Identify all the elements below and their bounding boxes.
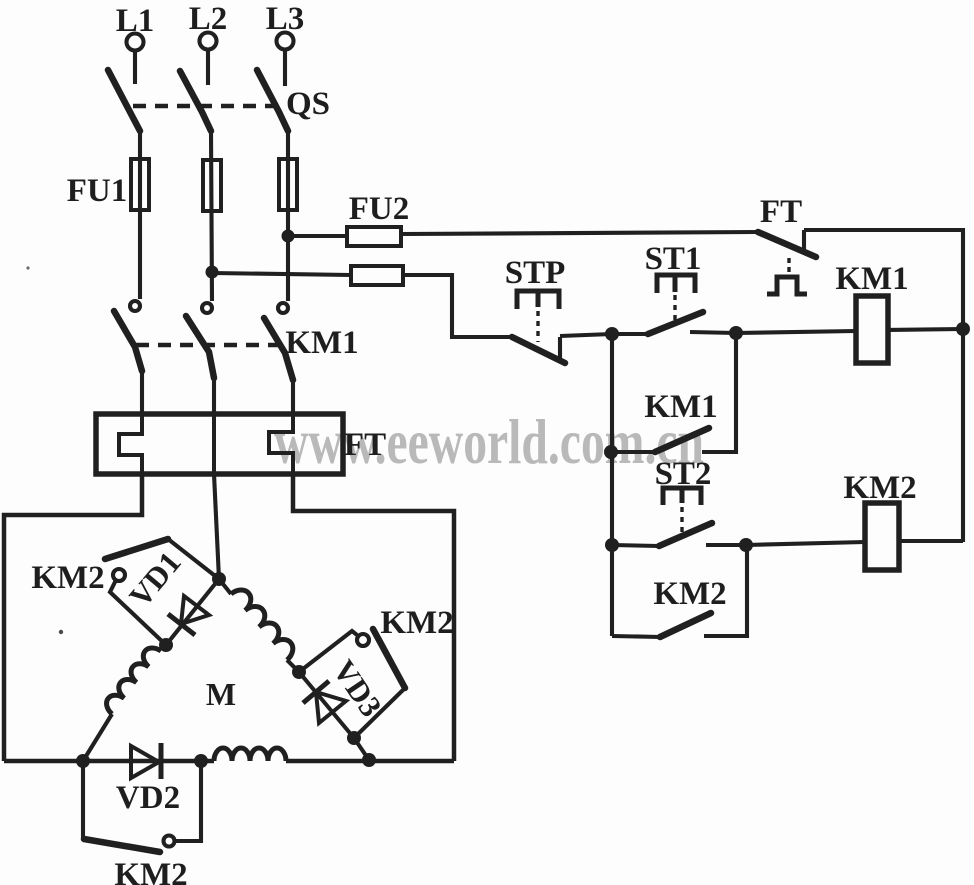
fuse FU1 pole3 (279, 159, 297, 210)
contact KM2 (VD1) terminal (113, 569, 125, 581)
svg-text:L1: L1 (116, 3, 155, 39)
wire vertex to right coil (219, 579, 231, 594)
node VD1 lower (159, 638, 173, 652)
svg-text:KM2: KM2 (653, 576, 726, 612)
diode VD2 cathode bar (159, 743, 164, 779)
button STP blade (512, 337, 565, 363)
node right rail (956, 322, 970, 336)
wire motor bottom bus right (286, 759, 454, 764)
node L2 terminal (189, 1, 228, 50)
node ST2 left (605, 538, 619, 552)
wire KM2 aux right (704, 545, 747, 636)
diode VD3 cathode bar (303, 681, 329, 703)
svg-text:VD1: VD1 (122, 545, 188, 614)
contactor KM1 pole2 terminal (202, 303, 212, 313)
speck (59, 630, 63, 634)
wire node to ST2 (612, 545, 659, 546)
svg-text:VD2: VD2 (116, 780, 180, 816)
thermal contact FT blade (758, 232, 816, 257)
wire KM1 pole3 to FT box (291, 380, 295, 414)
wire VD3 to bottom bus (354, 738, 369, 760)
button STP dashed (536, 311, 539, 342)
contactor KM1 pole3 terminal (278, 303, 288, 313)
button ST1 blade (648, 312, 703, 334)
svg-text:FU2: FU2 (349, 191, 410, 227)
FT heater element right (269, 414, 293, 474)
diode VD1 triangle (181, 596, 209, 624)
node L3 terminal (266, 1, 305, 50)
button ST2 dashed (680, 507, 683, 538)
svg-text:KM1: KM1 (285, 325, 358, 361)
svg-text:STP: STP (505, 255, 566, 291)
contact KM2 (VD1) blade (105, 539, 168, 559)
wire KM1 coil to right rail (888, 329, 963, 330)
svg-text:FT: FT (760, 194, 802, 230)
switch QS linkage dashed (133, 104, 283, 109)
wire node A to ST1 (612, 332, 648, 336)
wire VD1 loop upper side (168, 539, 219, 579)
wire FT to right rail (804, 230, 963, 542)
winding M bottom coil (214, 748, 286, 761)
contactor KM1 linkage dashed (136, 343, 286, 348)
wire QS pole2 to FU1 (211, 131, 212, 301)
button STP cap (517, 291, 559, 309)
svg-text:L2: L2 (189, 1, 228, 37)
wire KM2 coil to right rail (899, 539, 963, 543)
switch QS pole 3 blade (257, 70, 288, 131)
svg-text:KM2: KM2 (114, 857, 187, 885)
svg-text:M: M (206, 676, 236, 712)
contact KM2 (VD2) terminal (164, 836, 175, 847)
diode VD3 triangle (316, 692, 346, 723)
wire VD3 loop right side (354, 688, 405, 738)
thermal contact FT fixed stub (802, 230, 806, 251)
wire to KM1 aux (612, 450, 655, 454)
contact KM2 (VD3) terminal (357, 634, 369, 646)
wire node B to KM1 coil (736, 331, 856, 333)
wire left coil to vertex (83, 714, 112, 761)
FT heater element left (119, 414, 142, 474)
svg-text:KM1: KM1 (835, 261, 908, 297)
switch QS pole 2 blade (180, 71, 211, 131)
wire QS pole3 to FU1 (286, 131, 290, 301)
button ST1 cap (657, 275, 695, 293)
diode VD1 series segment (166, 579, 219, 645)
wire KM1 pole2 to FT box (212, 378, 216, 414)
contactor KM1 pole1 terminal (130, 301, 140, 311)
contactor KM1 pole1 blade (114, 311, 142, 371)
wire to KM2 aux (612, 636, 660, 637)
wire ST2 right (706, 543, 746, 547)
switch QS pole 1 blade (108, 70, 140, 131)
svg-text:FT: FT (344, 427, 386, 463)
node L1 terminal (116, 3, 155, 51)
wire right coil to VD3 (287, 660, 299, 672)
svg-text:KM2: KM2 (380, 605, 453, 641)
svg-text:L3: L3 (266, 1, 305, 37)
fuse FU1 pole1 (131, 159, 149, 210)
wire L2 drop (206, 50, 210, 85)
wire L1 drop (133, 51, 137, 84)
thermal contact FT dashed (787, 258, 790, 274)
winding M left coil (107, 648, 161, 714)
wire VD2 bypass left (81, 761, 85, 838)
wire KM1 aux right (702, 333, 736, 452)
fuse FU1 pole2 (203, 160, 221, 211)
wire VD3 loop left side (299, 631, 357, 672)
diode VD1 cathode bar (168, 614, 195, 635)
contact KM2 (VD2) blade (84, 839, 160, 852)
node motor bottom-left vertex (76, 754, 90, 768)
node VD3 upper (292, 665, 306, 679)
coil KM1 (856, 296, 888, 363)
wire FU2 lower to STP (403, 275, 512, 337)
svg-text:KM1: KM1 (644, 389, 717, 425)
fuse FU2 lower (351, 266, 403, 285)
speck (26, 266, 29, 269)
wire FT middle phase to motor vertex (214, 474, 219, 579)
wire FU2 upper to FT contact (401, 232, 758, 234)
wire FT right phase down (293, 474, 454, 761)
node KM1 aux left (604, 445, 618, 459)
contactor KM1 pole3 blade (264, 318, 293, 380)
diode VD2 triangle (131, 746, 159, 778)
contact KM1 aux blade (655, 428, 709, 452)
button ST2 blade (659, 523, 712, 546)
fuse FU2 upper (347, 227, 401, 246)
contact KM2 aux blade (660, 613, 711, 637)
button ST1 dashed (673, 295, 676, 326)
svg-text:FU1: FU1 (67, 173, 128, 209)
wire ST2 to KM2 coil (746, 542, 865, 545)
wire left branch vertical (610, 334, 614, 636)
node motor top vertex (212, 572, 226, 586)
wire VD2 bypass right (175, 761, 201, 841)
wire to FU2 lower (212, 273, 351, 275)
thermal relay FT heater box (96, 414, 343, 474)
wire to FU2 upper (288, 234, 347, 238)
node junction L3/FU2 (282, 230, 295, 243)
wire VD1 loop left side (110, 580, 166, 645)
wire QS pole1 to FU1 (138, 131, 142, 299)
node ST2 right (739, 538, 753, 552)
node A (605, 327, 619, 341)
node VD2 right (194, 754, 208, 768)
button ST2 cap (663, 488, 701, 505)
button STP fixed stub (558, 337, 562, 360)
winding M right coil (231, 590, 293, 660)
coil KM2 (865, 503, 899, 570)
FT heater element middle wire (212, 414, 216, 474)
svg-text:KM2: KM2 (31, 560, 104, 596)
node B (729, 326, 743, 340)
wire motor bottom bus left (4, 759, 214, 764)
wire ST1 to node B (690, 332, 736, 333)
thermal contact FT actuator (767, 277, 807, 294)
wire L3 drop (283, 50, 287, 86)
contactor KM1 pole2 blade (186, 316, 214, 378)
svg-text:ST1: ST1 (645, 241, 702, 277)
wire FT left phase down (4, 474, 142, 761)
node bottom bus VD3 (362, 753, 376, 767)
wire KM1 pole1 to FT box (140, 371, 144, 414)
node VD3 lower (347, 731, 361, 745)
contact KM2 (VD3) blade (373, 629, 405, 688)
diode VD3 series segment (299, 672, 354, 738)
node junction L2/FU2 (206, 266, 219, 279)
svg-text:QS: QS (286, 86, 330, 122)
svg-text:KM2: KM2 (843, 470, 916, 506)
wire STP to node A (560, 334, 612, 336)
